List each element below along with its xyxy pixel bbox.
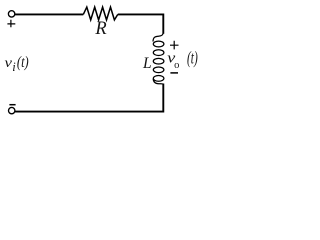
svg-text:o: o xyxy=(174,60,179,71)
terminal top-left (+ input) xyxy=(8,11,14,17)
label v_i(t) xyxy=(5,54,29,74)
label v_o(t) xyxy=(167,49,198,71)
wire bottom-right (inductor to corner to bottom terminal) xyxy=(15,84,163,112)
terminal bottom-left (− input) xyxy=(9,107,15,113)
minus polarity mark (input) xyxy=(9,104,15,106)
minus polarity mark (output) xyxy=(170,72,178,74)
inductor L1 coil xyxy=(153,32,164,84)
plus polarity mark (output) xyxy=(170,41,179,50)
resistor R1 zigzag xyxy=(83,7,118,20)
svg-text:L: L xyxy=(142,55,152,72)
wire top-left (terminal to resistor) xyxy=(15,13,84,15)
svg-text:v: v xyxy=(5,55,13,70)
plus polarity mark (input) xyxy=(7,20,15,28)
svg-text:(t): (t) xyxy=(17,54,29,72)
wire top-right (resistor to corner, down to inductor) xyxy=(118,14,164,33)
svg-text:R: R xyxy=(94,19,106,39)
svg-text:(t): (t) xyxy=(187,49,198,68)
svg-text:i: i xyxy=(12,60,16,74)
